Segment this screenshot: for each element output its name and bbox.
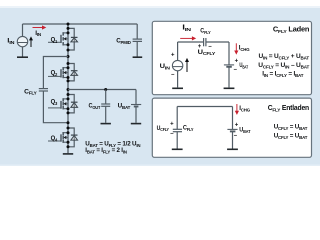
svg-text:Q3​: Q3​ (51, 99, 58, 106)
svg-text:Q1​: Q1​ (51, 37, 58, 44)
svg-text:Q4​: Q4​ (51, 135, 58, 142)
svg-text:Q2​: Q2​ (51, 70, 58, 77)
